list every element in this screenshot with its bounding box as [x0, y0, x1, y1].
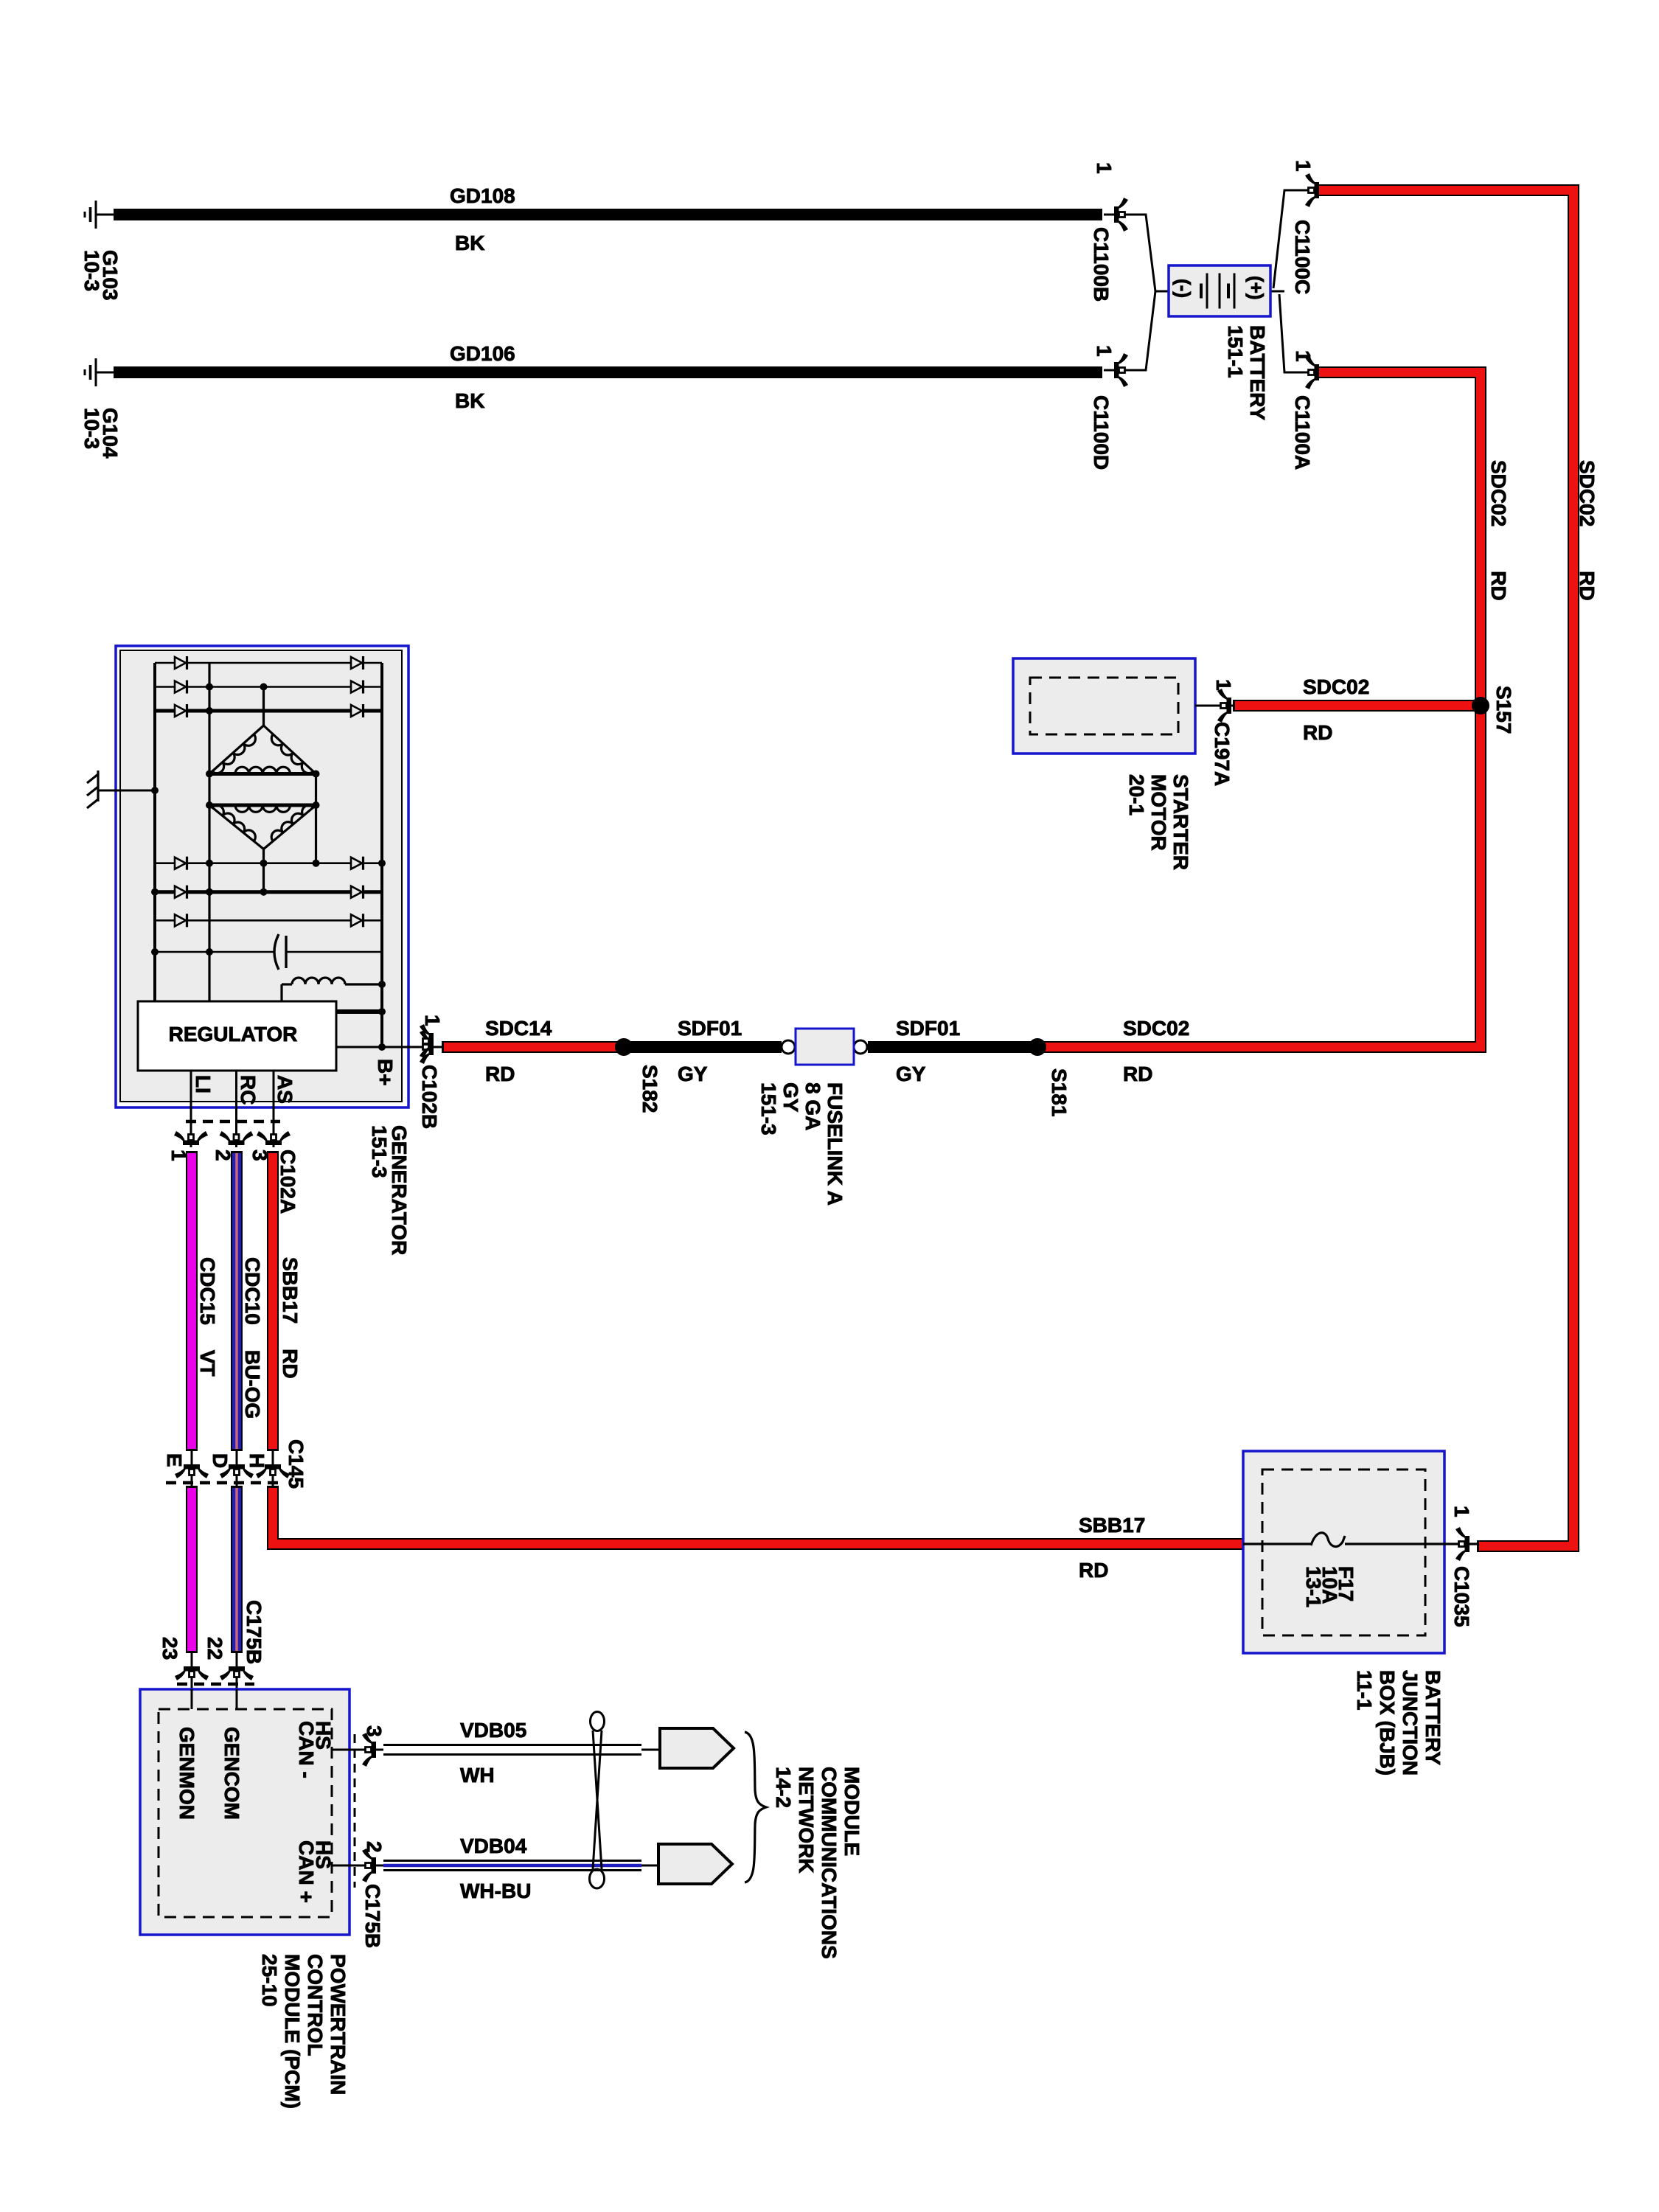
svg-text:C175B: C175B	[243, 1600, 265, 1664]
svg-text:VDB05: VDB05	[460, 1719, 526, 1742]
svg-text:SDC02: SDC02	[1123, 1017, 1189, 1040]
svg-text:22: 22	[204, 1637, 226, 1660]
svg-text:RD: RD	[485, 1062, 515, 1085]
svg-text:GD106: GD106	[450, 342, 515, 365]
svg-text:RC: RC	[237, 1075, 260, 1105]
svg-text:GY: GY	[678, 1062, 708, 1085]
svg-text:REGULATOR: REGULATOR	[169, 1023, 298, 1046]
svg-text:3: 3	[363, 1725, 386, 1737]
svg-text:1: 1	[421, 1015, 444, 1026]
svg-text:C145: C145	[285, 1439, 307, 1489]
svg-text:AS: AS	[274, 1075, 296, 1104]
svg-text:RD: RD	[1303, 721, 1332, 744]
svg-text:C1100A: C1100A	[1291, 395, 1314, 470]
svg-text:SDF01: SDF01	[678, 1017, 742, 1040]
svg-text:C1100D: C1100D	[1090, 395, 1113, 470]
svg-text:23: 23	[159, 1637, 181, 1660]
svg-text:S182: S182	[639, 1065, 661, 1113]
svg-text:C1100B: C1100B	[1090, 227, 1113, 302]
svg-text:GD108: GD108	[450, 184, 515, 207]
svg-text:1: 1	[1292, 350, 1315, 362]
svg-text:C102A: C102A	[276, 1150, 299, 1214]
svg-text:S157: S157	[1492, 686, 1515, 734]
svg-text:LI: LI	[192, 1075, 215, 1093]
svg-text:GENCOM: GENCOM	[220, 1727, 243, 1820]
svg-text:F1710A13-1: F1710A13-1	[1302, 1566, 1357, 1607]
svg-text:1: 1	[1450, 1506, 1473, 1517]
svg-text:1: 1	[1212, 679, 1235, 691]
svg-text:C1035: C1035	[1450, 1566, 1473, 1627]
svg-text:C102B: C102B	[418, 1065, 441, 1129]
svg-text:B+: B+	[374, 1059, 397, 1086]
svg-text:WH-BU: WH-BU	[460, 1879, 531, 1902]
svg-text:S181: S181	[1048, 1068, 1071, 1116]
svg-text:D: D	[209, 1453, 232, 1468]
svg-text:CDC15VT: CDC15VT	[196, 1257, 219, 1377]
svg-text:SBB17RD: SBB17RD	[279, 1257, 302, 1379]
svg-text:WH: WH	[460, 1764, 495, 1787]
svg-text:BK: BK	[455, 232, 484, 254]
svg-text:SBB17: SBB17	[1079, 1514, 1145, 1537]
svg-text:(-): (-)	[1172, 279, 1194, 298]
svg-text:RD: RD	[1079, 1559, 1108, 1582]
svg-text:VDB04: VDB04	[460, 1834, 527, 1857]
svg-text:1: 1	[1292, 160, 1315, 172]
svg-text:C1100C: C1100C	[1291, 220, 1314, 294]
svg-text:1: 1	[1093, 162, 1116, 174]
svg-text:C175B: C175B	[361, 1884, 384, 1948]
svg-text:SDC14: SDC14	[485, 1017, 552, 1040]
svg-text:(+): (+)	[1245, 276, 1267, 300]
svg-text:SDC02: SDC02	[1303, 675, 1369, 698]
svg-text:BK: BK	[455, 389, 484, 412]
svg-text:SDF01: SDF01	[896, 1017, 960, 1040]
svg-text:E: E	[163, 1453, 186, 1467]
svg-text:2: 2	[363, 1841, 386, 1853]
svg-text:H: H	[246, 1453, 268, 1468]
svg-text:GY: GY	[896, 1062, 926, 1085]
svg-text:GENMON: GENMON	[175, 1727, 198, 1820]
svg-text:1: 1	[1093, 345, 1116, 357]
svg-text:RD: RD	[1123, 1062, 1152, 1085]
svg-text:C197A: C197A	[1211, 722, 1234, 786]
